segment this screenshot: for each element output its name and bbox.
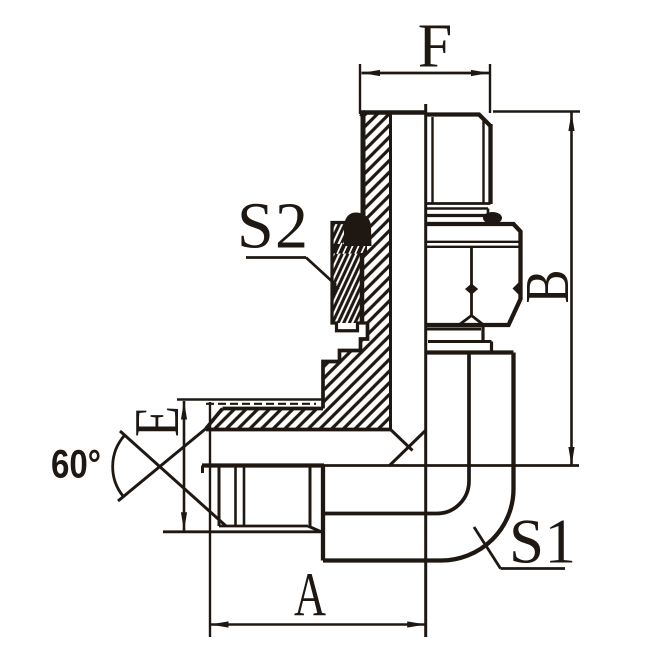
dimension F line — [362, 72, 490, 75]
svg-text:A: A — [294, 562, 326, 630]
flange top edge — [223, 407, 324, 411]
thread minor bottom line — [219, 525, 308, 528]
thread start lines — [234, 466, 237, 526]
nut chamfer lines — [426, 241, 520, 243]
dimension B line — [570, 113, 573, 466]
locknut outline — [332, 223, 368, 331]
hex corner line — [470, 247, 473, 316]
B top extension — [493, 110, 580, 112]
hex nut B (right external) — [426, 224, 521, 325]
corner chamfer line — [390, 429, 413, 451]
60 degree arc — [113, 435, 125, 496]
top stud external (right half) — [426, 115, 491, 127]
svg-text:60°: 60° — [51, 443, 101, 487]
svg-text:E: E — [122, 406, 192, 437]
hatched body L-wall section — [206, 111, 391, 430]
leg bottom edge — [323, 558, 441, 562]
bottom stud top edge + B bottom extension — [202, 463, 324, 467]
hex corner diamond right — [513, 281, 521, 297]
body wall left edge — [361, 112, 366, 218]
F extension lines — [359, 64, 361, 114]
hex bottom V — [460, 316, 484, 325]
locknut thread zigzag band — [332, 244, 367, 254]
hex corner diamond center — [465, 284, 478, 295]
retaining ring — [428, 340, 492, 343]
dimension E line — [183, 401, 186, 531]
elbow outer radius S1 — [441, 489, 514, 561]
body hatch bottom edge — [206, 428, 391, 432]
seal (right, filled) — [483, 212, 502, 224]
dimension A line — [210, 623, 426, 626]
A left extension — [209, 402, 211, 637]
leg top line — [323, 512, 437, 516]
svg-text:F: F — [418, 13, 452, 81]
thread dashed line — [206, 403, 316, 405]
washer under nut — [427, 328, 481, 331]
locknut-wall boundary — [360, 253, 365, 323]
stud thread minor lines — [431, 117, 433, 203]
stud bottom rings — [426, 202, 491, 205]
stud OD bottom line (E bottom extension) — [163, 530, 323, 533]
cone line upper — [120, 431, 226, 526]
bore corner diagonal — [389, 430, 426, 466]
body flange top — [427, 350, 514, 354]
svg-text:2: 2 — [275, 190, 308, 263]
label E — [122, 406, 192, 437]
cone line lower — [118, 429, 206, 502]
elbow body outer edge — [511, 353, 515, 490]
nut bottom edge — [427, 323, 509, 327]
runout chamfer — [308, 526, 321, 532]
svg-text:1: 1 — [545, 507, 577, 577]
stud end face corner tick — [201, 466, 204, 474]
locknut S2 hatched section — [332, 223, 362, 324]
thread end line — [309, 466, 312, 526]
stud end face — [218, 466, 221, 526]
thread crest solid line (E top extension) — [177, 398, 324, 401]
svg-text:S: S — [509, 507, 544, 577]
body wall right edge (bore wall) — [389, 111, 392, 430]
stud right edge — [488, 124, 492, 204]
body face — [321, 466, 325, 561]
label B — [514, 270, 582, 304]
centerline / half-section boundary — [424, 104, 427, 637]
elbow inner edge — [467, 353, 471, 482]
elbow inner radius — [437, 481, 469, 514]
staircase boundary below locknut — [323, 323, 368, 409]
body wall top edge — [360, 110, 426, 115]
seal (left, filled) — [344, 213, 372, 247]
flange chamfer — [206, 409, 223, 429]
svg-text:S: S — [237, 190, 274, 263]
svg-text:B: B — [514, 270, 582, 304]
locknut hex notch left — [332, 281, 340, 296]
